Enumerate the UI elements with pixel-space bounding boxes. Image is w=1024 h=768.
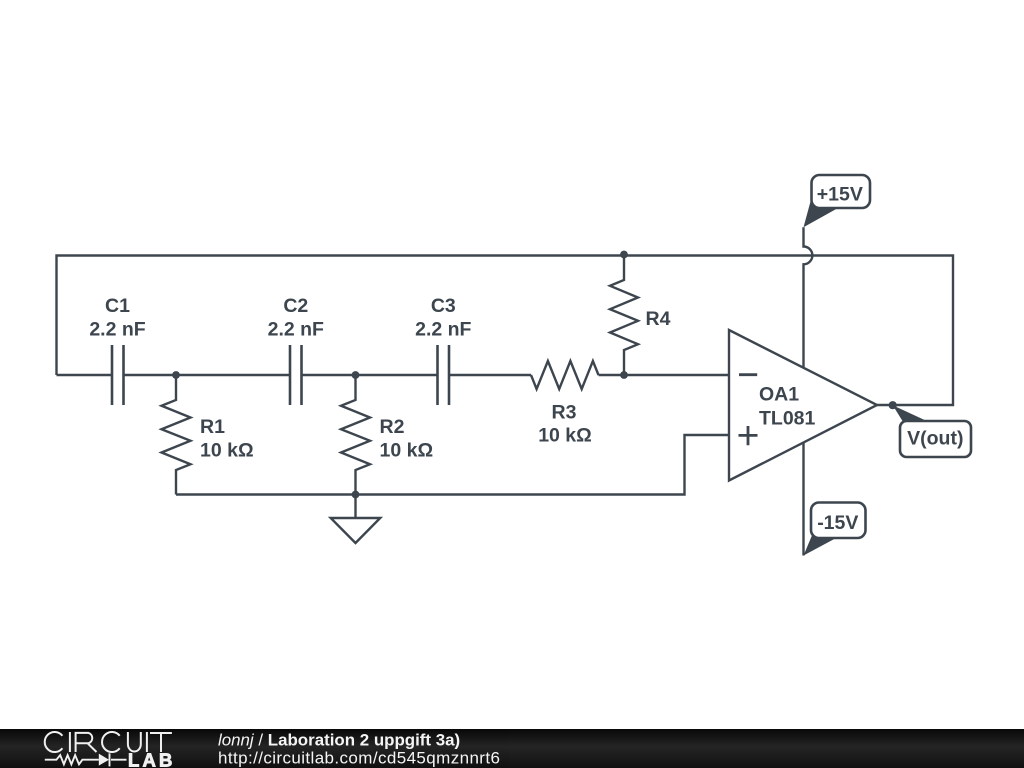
svg-text:10 kΩ: 10 kΩ [200,440,254,462]
svg-text:OA1: OA1 [759,384,799,406]
svg-text:C3: C3 [431,295,456,317]
svg-text:+15V: +15V [817,184,863,206]
svg-text:C2: C2 [283,295,308,317]
svg-text:V(out): V(out) [907,428,963,450]
svg-text:http://circuitlab.com/cd545qmz: http://circuitlab.com/cd545qmznnrt6 [218,749,500,768]
svg-text:R1: R1 [200,416,225,438]
svg-text:C1: C1 [105,295,130,317]
svg-text:2.2 nF: 2.2 nF [415,319,471,341]
svg-text:2.2 nF: 2.2 nF [89,319,145,341]
svg-text:2.2 nF: 2.2 nF [268,319,324,341]
svg-text:10 kΩ: 10 kΩ [538,425,592,447]
svg-text:TL081: TL081 [759,408,816,430]
svg-text:lonnj / Laboration 2 uppgift 3: lonnj / Laboration 2 uppgift 3a) [218,730,460,749]
svg-text:10 kΩ: 10 kΩ [380,440,434,462]
svg-text:LAB: LAB [128,749,176,768]
svg-text:R4: R4 [646,308,671,330]
svg-text:R2: R2 [380,416,405,438]
svg-text:R3: R3 [552,401,577,423]
svg-text:-15V: -15V [817,512,858,534]
